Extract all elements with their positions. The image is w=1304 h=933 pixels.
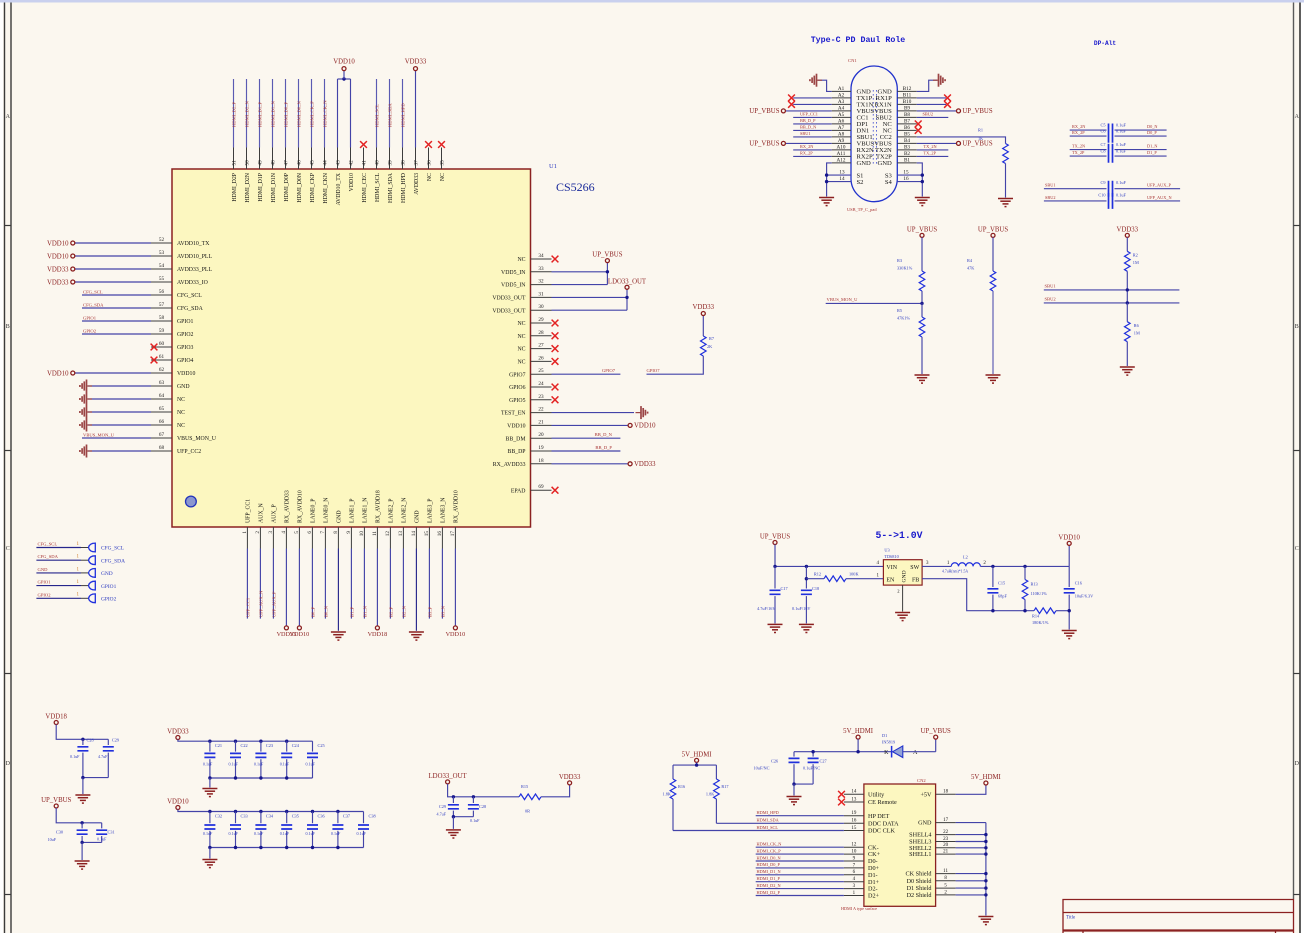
svg-text:27: 27 bbox=[538, 343, 544, 349]
svg-text:VDD33: VDD33 bbox=[47, 279, 69, 286]
U1 EPAD pin 69 bbox=[531, 489, 552, 491]
U1 top pin 36 NC bbox=[428, 148, 430, 170]
svg-text:B1_N: B1_N bbox=[363, 605, 368, 617]
svg-text:VDD18: VDD18 bbox=[368, 631, 388, 638]
wire pin 52 to VDD10 bbox=[75, 242, 151, 244]
node junction 5V_HDMI bbox=[856, 750, 859, 753]
svg-text:GPIO4: GPIO4 bbox=[177, 358, 194, 364]
svg-text:LANE3_P: LANE3_P bbox=[428, 499, 434, 523]
U1 top pin 35 NC bbox=[441, 148, 443, 170]
svg-text:HDMI_SDA: HDMI_SDA bbox=[388, 172, 394, 203]
node junction C15 bottom bbox=[991, 609, 994, 612]
wire net B1_N bbox=[363, 549, 365, 619]
node junction EN tap bbox=[805, 577, 808, 580]
ground (CN1 top-left) bbox=[810, 74, 822, 87]
svg-text:52: 52 bbox=[159, 237, 165, 243]
power UP_VBUS (B9) bbox=[957, 109, 961, 113]
resistor R5 bbox=[919, 317, 925, 337]
svg-text:VDD10: VDD10 bbox=[177, 371, 195, 377]
wire 5V_HDMI pullup rail bbox=[696, 762, 698, 765]
svg-text:R17: R17 bbox=[721, 784, 729, 789]
power VDD33 (after R15) bbox=[568, 781, 572, 785]
svg-text:0.1uF: 0.1uF bbox=[203, 762, 213, 767]
wire pin 64 to gnd flag bbox=[88, 398, 151, 400]
svg-text:C28: C28 bbox=[87, 738, 94, 743]
ground (U3) bbox=[895, 613, 910, 621]
wire B10 RX1N (NC) bbox=[917, 103, 946, 105]
wire net HDMI_D0_N bbox=[756, 860, 844, 862]
svg-text:B3_P: B3_P bbox=[428, 606, 433, 617]
power LDO33_OUT bbox=[625, 285, 629, 289]
wire net HDMI_HPD bbox=[402, 79, 404, 148]
no-connect bbox=[151, 344, 158, 351]
CN2 pin 11 CK Shield bbox=[936, 873, 956, 875]
svg-text:B2_P: B2_P bbox=[389, 606, 394, 617]
svg-text:HDMI_D0N: HDMI_D0N bbox=[297, 172, 303, 202]
svg-text:44: 44 bbox=[323, 160, 329, 166]
svg-text:0.1uF/16V: 0.1uF/16V bbox=[792, 606, 811, 611]
svg-text:100K: 100K bbox=[849, 572, 859, 577]
svg-text:VDD10: VDD10 bbox=[290, 631, 310, 638]
svg-text:R3: R3 bbox=[897, 258, 902, 263]
wire net VBUS_MON_U bbox=[82, 437, 151, 439]
no-connect bbox=[552, 256, 559, 263]
wire B12 GND to right ground bbox=[917, 80, 937, 91]
svg-text:D0_P: D0_P bbox=[1147, 130, 1157, 135]
wire net HDMI_D2_P bbox=[233, 79, 235, 148]
svg-text:CFG_SCL: CFG_SCL bbox=[38, 542, 58, 547]
svg-text:R1: R1 bbox=[978, 128, 983, 133]
power VDD10 pin 21 bbox=[628, 423, 632, 427]
wire TEST_EN pin 22 bbox=[552, 412, 635, 414]
svg-text:GND: GND bbox=[857, 160, 872, 167]
svg-text:10: 10 bbox=[851, 850, 857, 855]
wire R14 to C16 bbox=[1056, 610, 1069, 612]
wire R2 to SBU node bbox=[1126, 271, 1128, 303]
svg-text:HDMI_SDA: HDMI_SDA bbox=[388, 103, 393, 127]
wire net B3_P bbox=[428, 549, 430, 619]
U1 right pin 24 GPIO6 bbox=[531, 386, 552, 388]
svg-text:10uF/NC: 10uF/NC bbox=[754, 766, 770, 771]
svg-text:LANE0_P: LANE0_P bbox=[311, 499, 317, 523]
wire UP_VBUS down to VIN rail bbox=[774, 545, 776, 567]
capacitor C5 series coupling bbox=[1070, 129, 1107, 131]
no-connect EPAD bbox=[552, 487, 559, 494]
CN2 pin 22 SHELL4 bbox=[936, 834, 956, 836]
svg-text:C25: C25 bbox=[318, 743, 325, 748]
capacitor C36 bbox=[311, 810, 314, 813]
svg-text:VBUS_MON_U: VBUS_MON_U bbox=[827, 297, 859, 302]
svg-text:9: 9 bbox=[346, 531, 352, 534]
wire net HDMI_SCL bbox=[376, 79, 378, 148]
connector header GND bbox=[36, 572, 81, 574]
svg-text:C22: C22 bbox=[241, 743, 248, 748]
svg-text:GND: GND bbox=[878, 160, 893, 167]
svg-text:B: B bbox=[1295, 324, 1299, 330]
top lavender band bbox=[0, 0, 1304, 3]
svg-text:A8: A8 bbox=[838, 132, 845, 138]
CN1 pin B7 NC bbox=[897, 123, 916, 125]
svg-text:VDD33: VDD33 bbox=[634, 461, 656, 468]
svg-text:HDMI_D2_P: HDMI_D2_P bbox=[757, 890, 781, 895]
svg-text:10: 10 bbox=[359, 531, 365, 537]
U1 bottom pin 11 RX_AVDD18 bbox=[376, 527, 378, 549]
U1 bottom pin 10 LANE1_N bbox=[363, 527, 365, 549]
op-amp U1 CS5266 main chip body bbox=[172, 169, 531, 527]
CN1 pin B10 RX1N bbox=[897, 103, 916, 105]
node VDD10 junction bbox=[342, 77, 345, 80]
U1 bottom pin 17 RX_AVDD10 bbox=[454, 527, 456, 549]
svg-text:HDMI_CEC: HDMI_CEC bbox=[362, 173, 368, 203]
U1 bottom pin 9 LANE1_P bbox=[350, 527, 352, 549]
svg-text:B12: B12 bbox=[903, 86, 912, 92]
CN1 pin 16 S4 bbox=[897, 181, 922, 183]
svg-text:SW: SW bbox=[910, 565, 919, 571]
wire net HDMI_D0_P bbox=[756, 867, 844, 869]
resistor R3 bbox=[919, 271, 925, 291]
U1 bottom pin 4 RX_AVDD33 bbox=[285, 527, 287, 549]
svg-text:43: 43 bbox=[336, 160, 342, 166]
svg-text:BB_DP: BB_DP bbox=[507, 449, 525, 455]
U1 left pin 58 GPIO1 bbox=[151, 320, 172, 322]
svg-text:B0_N: B0_N bbox=[324, 605, 329, 617]
svg-text:C6: C6 bbox=[1100, 129, 1106, 134]
svg-text:VIN: VIN bbox=[886, 565, 897, 571]
U1 left pin 65 NC bbox=[151, 411, 172, 413]
wire pin 54 to VDD33 bbox=[75, 268, 151, 270]
wire to ground bbox=[452, 817, 454, 829]
svg-text:NC: NC bbox=[177, 397, 185, 403]
svg-text:GND: GND bbox=[337, 510, 343, 523]
node junction shield SHELL4 bbox=[984, 833, 987, 836]
U1 right pin 30 VDD33_OUT bbox=[531, 309, 552, 311]
wire FB feedback bbox=[922, 579, 1034, 611]
power UP_VBUS (VDD5_IN) bbox=[605, 259, 609, 263]
node junction R13 bottom bbox=[1023, 609, 1026, 612]
svg-text:4.7uF/16V: 4.7uF/16V bbox=[757, 606, 776, 611]
svg-text:0.1uF: 0.1uF bbox=[331, 831, 341, 836]
CN2 pin 1 D2+ bbox=[844, 895, 864, 897]
svg-text:VDD10: VDD10 bbox=[1058, 534, 1080, 541]
svg-text:UFP_CC1: UFP_CC1 bbox=[246, 597, 251, 617]
svg-text:HDMI_D1_N: HDMI_D1_N bbox=[271, 101, 276, 127]
svg-text:HDMI_SCL: HDMI_SCL bbox=[757, 825, 779, 830]
power UP_VBUS (B4) bbox=[957, 141, 961, 145]
CN2 pin 7 D0+ bbox=[844, 867, 864, 869]
svg-text:R16: R16 bbox=[678, 784, 686, 789]
CN1 pin A5 CC1 bbox=[832, 116, 851, 118]
svg-text:GPIO1: GPIO1 bbox=[177, 319, 194, 325]
svg-text:C: C bbox=[1295, 546, 1299, 552]
svg-text:NC: NC bbox=[177, 423, 185, 429]
CN2 pin 14 Utility bbox=[844, 793, 864, 795]
wire R3 to node bbox=[921, 291, 923, 303]
U1 top pin 46 HDMI_D0N bbox=[298, 148, 300, 170]
node junction pin31 bbox=[625, 296, 628, 299]
capacitor C31 bbox=[101, 823, 103, 829]
node junction S4 bbox=[921, 180, 924, 183]
power VDD10 (below U1) bbox=[453, 626, 457, 630]
power VDD10 pin 62 bbox=[71, 371, 75, 375]
svg-text:SBU1: SBU1 bbox=[800, 131, 811, 136]
U1 top pin 47 HDMI_D0P bbox=[285, 148, 287, 170]
power VDD33 (top of U1) bbox=[414, 67, 418, 71]
capacitor C29 (LDO) bbox=[452, 797, 454, 803]
power 5V_HDMI (pullups) bbox=[695, 758, 699, 762]
svg-text:GND: GND bbox=[177, 384, 190, 390]
wire net HDMI_CK_N bbox=[324, 79, 326, 148]
wire to ground bbox=[209, 848, 211, 859]
svg-text:B: B bbox=[6, 324, 10, 330]
capacitor C9 SBU1 coupling bbox=[1044, 188, 1107, 190]
U1 right pin 25 GPIO7 bbox=[531, 373, 552, 375]
CN2 pin 13 CE Remote bbox=[844, 801, 864, 803]
U1 top pin 44 HDMI_CKN bbox=[324, 148, 326, 170]
svg-text:HDMI_SCL: HDMI_SCL bbox=[375, 173, 381, 202]
ground flag pin 63 bbox=[80, 380, 92, 393]
svg-text:HDMI A type surface: HDMI A type surface bbox=[841, 906, 877, 911]
svg-text:NC: NC bbox=[427, 173, 433, 181]
wire UP_VBUS cap rail bbox=[56, 808, 101, 823]
svg-text:NC: NC bbox=[517, 321, 525, 327]
capacitor C18 bbox=[805, 566, 807, 588]
ground (R6) bbox=[1120, 367, 1135, 375]
svg-text:AVDD10_PLL: AVDD10_PLL bbox=[177, 254, 212, 260]
svg-text:UFP_AUX_P: UFP_AUX_P bbox=[1147, 183, 1171, 188]
svg-text:AUX_P: AUX_P bbox=[272, 504, 278, 523]
wire VDD10 bank bottom rail bbox=[210, 847, 364, 849]
CN2 pin 17 GND bbox=[936, 822, 956, 824]
wire net SBU2 (pull) bbox=[1044, 302, 1180, 304]
svg-text:C31: C31 bbox=[108, 830, 115, 835]
no-connect bbox=[552, 384, 559, 391]
power VDD10 (top of U1) bbox=[342, 67, 346, 71]
U1 left pin 55 AVDD33_IO bbox=[151, 281, 172, 283]
svg-text:VDD10: VDD10 bbox=[507, 424, 525, 430]
svg-text:13: 13 bbox=[851, 797, 857, 802]
wire VDD18 rail bbox=[56, 725, 108, 740]
svg-text:12: 12 bbox=[385, 531, 391, 537]
svg-text:C37: C37 bbox=[343, 814, 351, 819]
svg-text:1.8K: 1.8K bbox=[706, 792, 715, 797]
svg-text:0.1uF: 0.1uF bbox=[254, 762, 264, 767]
svg-text:13: 13 bbox=[398, 531, 404, 537]
svg-text:AUX_N: AUX_N bbox=[259, 503, 265, 523]
svg-text:GPIO2: GPIO2 bbox=[101, 597, 117, 603]
svg-text:DDC CLK: DDC CLK bbox=[868, 828, 896, 835]
svg-text:B10: B10 bbox=[903, 99, 912, 105]
U1 bottom pin 7 LANE0_N bbox=[324, 527, 326, 549]
capacitor C15 bbox=[992, 566, 994, 587]
svg-text:45: 45 bbox=[310, 160, 316, 166]
svg-text:23: 23 bbox=[538, 394, 544, 400]
CN2 pin 18 +5V bbox=[936, 793, 956, 795]
node junction C28 bottom bbox=[81, 776, 84, 779]
wire VIN rail bbox=[775, 565, 883, 567]
svg-text:VDD10: VDD10 bbox=[446, 631, 466, 638]
wire net B2_P bbox=[389, 549, 391, 619]
svg-text:47: 47 bbox=[284, 160, 290, 166]
svg-text:35: 35 bbox=[440, 160, 446, 166]
U1 bottom pin 16 LANE3_N bbox=[441, 527, 443, 549]
svg-text:53: 53 bbox=[159, 250, 165, 256]
wire C28/C29 bottom rail bbox=[83, 777, 108, 779]
node junction C18 bbox=[805, 565, 808, 568]
svg-text:HDMI_D1_P: HDMI_D1_P bbox=[258, 102, 263, 127]
svg-text:C38: C38 bbox=[369, 814, 376, 819]
svg-text:VDD33: VDD33 bbox=[693, 304, 715, 311]
svg-text:USB_TP_C_pad: USB_TP_C_pad bbox=[847, 207, 877, 212]
svg-text:TX_2N: TX_2N bbox=[924, 144, 937, 149]
U1 right pin 32 VDD5_IN bbox=[531, 284, 552, 286]
ground flag pin 64 bbox=[80, 393, 92, 406]
svg-text:GND: GND bbox=[918, 820, 932, 827]
svg-text:19: 19 bbox=[538, 445, 544, 451]
svg-text:VDD10: VDD10 bbox=[47, 370, 69, 377]
svg-text:HDMI_CK_P: HDMI_CK_P bbox=[757, 848, 782, 853]
wire net HDMI_D1_P bbox=[756, 881, 844, 883]
wire B11 RX1P (NC) bbox=[917, 97, 946, 99]
svg-text:C10: C10 bbox=[1098, 192, 1105, 197]
node junction S1 bbox=[825, 173, 828, 176]
svg-text:0.1uF/NC: 0.1uF/NC bbox=[803, 766, 820, 771]
svg-text:VDD33_OUT: VDD33_OUT bbox=[492, 296, 526, 302]
CN1 pin A11 RX2P bbox=[832, 155, 851, 157]
wire VDD10 cap rail bbox=[178, 810, 364, 812]
svg-text:56: 56 bbox=[159, 289, 165, 295]
capacitor plates C5/C6 bbox=[1109, 124, 1113, 143]
U1 right pin 27 NC bbox=[531, 348, 552, 350]
CN2 pin 8 D0 Shield bbox=[936, 880, 956, 882]
wire B4 VBUS to UP_VBUS bbox=[917, 142, 957, 144]
U1 right pin 23 GPIO5 bbox=[531, 399, 552, 401]
svg-text:34: 34 bbox=[538, 253, 544, 259]
capacitor plates C7/C8 bbox=[1109, 144, 1113, 163]
svg-text:C29: C29 bbox=[112, 738, 119, 743]
svg-text:B7: B7 bbox=[904, 119, 910, 125]
svg-text:3: 3 bbox=[268, 531, 274, 534]
power VDD33 (R2 top) bbox=[1125, 233, 1129, 237]
CN2 pin 23 SHELL3 bbox=[936, 841, 956, 843]
svg-text:GND: GND bbox=[101, 571, 113, 577]
svg-text:1M: 1M bbox=[1134, 331, 1140, 336]
svg-text:B5: B5 bbox=[904, 132, 910, 138]
svg-text:22: 22 bbox=[538, 407, 544, 413]
resistor R14 bbox=[1034, 608, 1056, 614]
power VDD33 pin 18 bbox=[628, 462, 632, 466]
power VDD10 pin 53 bbox=[71, 254, 75, 258]
resistor R6 bbox=[1125, 322, 1131, 342]
node junction C28b bbox=[472, 795, 475, 798]
svg-text:AVDD33_PLL: AVDD33_PLL bbox=[177, 267, 212, 273]
svg-text:TX_2P: TX_2P bbox=[924, 151, 937, 156]
svg-text:BB_D_P: BB_D_P bbox=[800, 118, 816, 123]
svg-text:CK Shield: CK Shield bbox=[906, 871, 933, 878]
svg-text:RX_2N: RX_2N bbox=[1072, 124, 1085, 129]
wire pin 62 to VDD10 bbox=[75, 372, 151, 374]
svg-text:B9: B9 bbox=[904, 106, 910, 112]
svg-text:HDMI_CK_P: HDMI_CK_P bbox=[310, 101, 315, 127]
U1 top pin 49 HDMI_D1P bbox=[259, 148, 261, 170]
svg-text:14: 14 bbox=[411, 531, 417, 537]
wire A8 net SBU1 bbox=[793, 136, 832, 138]
wire A9 VBUS to UP_VBUS bbox=[786, 142, 832, 144]
wire net UFP_AUX_P bbox=[272, 549, 274, 619]
node junction bbox=[452, 815, 455, 818]
wire B8 net SBU2 bbox=[917, 116, 949, 118]
U1 right pin 26 NC bbox=[531, 360, 552, 362]
svg-text:VDD5_IN: VDD5_IN bbox=[501, 270, 526, 276]
wire GND/shield bus bbox=[956, 822, 986, 824]
power UP_VBUS (cap bank) bbox=[54, 804, 58, 808]
wire B9 VBUS to UP_VBUS bbox=[917, 110, 957, 112]
svg-text:0.1uF: 0.1uF bbox=[70, 754, 80, 759]
svg-text:20: 20 bbox=[538, 432, 544, 438]
ground (U1 pin 8) bbox=[331, 632, 346, 640]
svg-text:5V_HDMI: 5V_HDMI bbox=[843, 728, 874, 735]
wire pin 4 to VDD33 bbox=[285, 549, 287, 626]
svg-text:18: 18 bbox=[943, 790, 949, 795]
svg-text:UP_VBUS: UP_VBUS bbox=[921, 728, 951, 735]
svg-text:4.7uF: 4.7uF bbox=[437, 812, 447, 817]
svg-text:VDD10: VDD10 bbox=[167, 799, 189, 806]
wire net B3_N bbox=[441, 549, 443, 619]
CN1 pin A12 GND bbox=[832, 162, 851, 164]
node junction S3 bbox=[921, 173, 924, 176]
svg-text:B11: B11 bbox=[903, 93, 912, 99]
svg-text:AVDD10_TX: AVDD10_TX bbox=[336, 172, 342, 205]
svg-text:HDMI_D0_P: HDMI_D0_P bbox=[757, 862, 781, 867]
U1 right pin 19 BB_DP bbox=[531, 450, 552, 452]
power VDD33 (cap bank) bbox=[176, 736, 180, 740]
capacitor C28 (LDO) bbox=[472, 797, 474, 803]
svg-text:UP_VBUS: UP_VBUS bbox=[749, 141, 779, 148]
power VDD18 (cap bank) bbox=[54, 721, 58, 725]
svg-text:D: D bbox=[1295, 761, 1300, 767]
wire output rail bbox=[980, 565, 1069, 567]
svg-text:GND: GND bbox=[902, 570, 908, 582]
svg-text:CFG_SCL: CFG_SCL bbox=[177, 293, 202, 299]
svg-text:A2: A2 bbox=[838, 93, 845, 99]
svg-text:GPIO1: GPIO1 bbox=[38, 580, 52, 585]
wire net B2_N bbox=[402, 549, 404, 619]
CN2 pin 3 D2- bbox=[844, 888, 864, 890]
svg-text:4.7uH(nm)*1.5A: 4.7uH(nm)*1.5A bbox=[942, 570, 968, 574]
CN1 pin A9 VBUS bbox=[832, 142, 851, 144]
svg-text:HDMI_D2_N: HDMI_D2_N bbox=[245, 101, 250, 127]
svg-text:15: 15 bbox=[424, 531, 430, 537]
U1 right pin 34 NC bbox=[531, 258, 552, 260]
U1 bottom pin 6 LANE0_P bbox=[311, 527, 313, 549]
svg-text:BB_DM: BB_DM bbox=[506, 436, 526, 442]
no-connect B7 bbox=[915, 121, 922, 128]
svg-text:26: 26 bbox=[538, 355, 544, 361]
svg-text:HDMI_D2P: HDMI_D2P bbox=[232, 173, 238, 202]
power VDD10 (cap bank) bbox=[176, 806, 180, 810]
svg-text:HDMI_CKN: HDMI_CKN bbox=[323, 172, 329, 203]
svg-text:SBU2: SBU2 bbox=[1045, 195, 1056, 200]
svg-text:GND: GND bbox=[415, 510, 421, 523]
CN2 pin 21 SHELL1 bbox=[936, 853, 956, 855]
resistor R15 bbox=[519, 794, 541, 800]
wire net HDMI_CK_P bbox=[311, 79, 313, 148]
wire output to VDD10 bbox=[1068, 545, 1070, 566]
svg-text:C9: C9 bbox=[1100, 180, 1105, 185]
wire to ground bbox=[793, 784, 795, 795]
wire A7 net BB_D_N bbox=[793, 129, 832, 131]
svg-text:CFG_SCL: CFG_SCL bbox=[83, 289, 103, 294]
svg-text:30: 30 bbox=[538, 304, 544, 310]
